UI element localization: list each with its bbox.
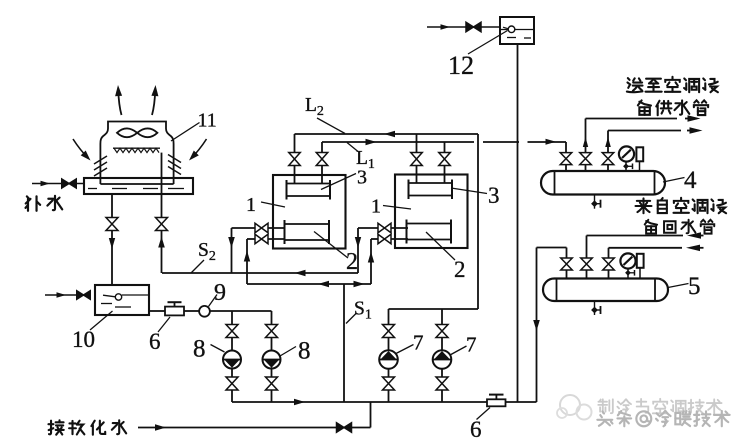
svg-text:7: 7 xyxy=(413,331,424,355)
svg-text:8: 8 xyxy=(298,338,311,365)
svg-text:2: 2 xyxy=(346,249,358,275)
svg-text:3: 3 xyxy=(488,183,500,208)
svg-text:1: 1 xyxy=(371,196,381,218)
svg-text:7: 7 xyxy=(466,333,477,357)
svg-text:12: 12 xyxy=(448,51,474,80)
svg-text:8: 8 xyxy=(193,336,206,363)
svg-text:5: 5 xyxy=(688,273,701,300)
svg-text:10: 10 xyxy=(72,327,95,352)
svg-text:S1: S1 xyxy=(354,299,372,323)
svg-text:S2: S2 xyxy=(198,240,216,264)
svg-text:3: 3 xyxy=(357,167,367,189)
svg-text:2: 2 xyxy=(454,257,466,282)
svg-text:4: 4 xyxy=(684,167,697,194)
svg-text:6: 6 xyxy=(470,417,482,440)
svg-text:11: 11 xyxy=(198,110,217,132)
svg-text:1: 1 xyxy=(246,194,256,216)
svg-text:6: 6 xyxy=(149,329,161,354)
svg-text:9: 9 xyxy=(214,280,226,306)
svg-text:L2: L2 xyxy=(305,95,324,119)
svg-text:L1: L1 xyxy=(356,148,375,172)
